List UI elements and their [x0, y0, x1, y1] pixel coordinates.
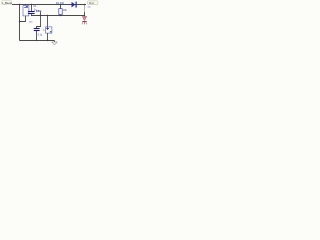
node L_Boost label: [1, 1, 12, 5]
wire battery bottom pin: [20, 16, 26, 22]
wire top rail: [12, 4, 86, 6]
wire C3 drop: [47, 16, 49, 27]
wire mid rail: [32, 15, 85, 17]
capacitor C2: [34, 29, 40, 41]
capacitor C3 electrolytic box: [46, 27, 52, 33]
wire LED drop lower: [84, 12, 86, 16]
resistor R1: [59, 5, 62, 16]
wire stub above C2 tee: [40, 12, 42, 16]
wire LED drop upper: [84, 5, 86, 13]
capacitor C1: [28, 5, 35, 16]
wire C2 drop: [37, 16, 41, 29]
ground: [52, 41, 58, 45]
junction dots: [19, 4, 20, 5]
svg-text:L_Boost: L_Boost: [2, 1, 12, 5]
svg-text:Out: Out: [89, 1, 95, 5]
wire bottom rail: [20, 40, 55, 42]
svg-text:100n: 100n: [36, 10, 42, 13]
LED D2: [82, 17, 87, 25]
background: [0, 0, 100, 45]
svg-text:1u: 1u: [43, 29, 45, 31]
wire left vertical: [19, 5, 21, 41]
svg-text:0.1u: 0.1u: [38, 34, 43, 36]
diode D1: [72, 2, 77, 8]
node Out label: [88, 1, 98, 5]
wire C3 bottom pin: [47, 33, 49, 40]
battery B1: [23, 6, 29, 16]
